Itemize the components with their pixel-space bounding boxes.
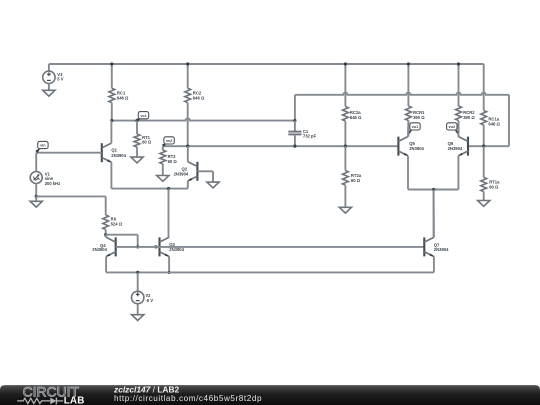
label RC2 646	[193, 91, 205, 101]
wire vc1 link left vertical	[294, 95, 296, 121]
junction RX bottom	[104, 233, 107, 236]
resistor RCR1	[406, 64, 412, 137]
wire Q1 collector	[110, 121, 112, 144]
junction vc2 RC2 Q2	[186, 145, 189, 148]
wire V1 bottom	[35, 184, 37, 197]
svg-text:646 Ω: 646 Ω	[350, 115, 362, 120]
svg-text:LAB: LAB	[64, 396, 85, 405]
wire Q6 emitter	[457, 156, 459, 190]
junction pair tail	[432, 188, 435, 191]
svg-text:http://circuitlab.com/c46b5w5r: http://circuitlab.com/c46b5w5r8t2dp	[114, 394, 262, 403]
node label vo1	[407, 123, 420, 134]
label RT1 60	[142, 135, 152, 145]
svg-text:5 V: 5 V	[57, 77, 63, 82]
ground (V1)	[30, 196, 42, 207]
svg-text:2N3904: 2N3904	[92, 247, 107, 252]
label Q7 2N3904	[434, 242, 449, 252]
wire Q3/Q7 base rail	[138, 246, 425, 248]
label Q3 2N3904	[169, 242, 184, 252]
svg-text:2N3904: 2N3904	[434, 247, 449, 252]
wire RX to Q4 base	[106, 235, 138, 247]
svg-text:vin: vin	[40, 144, 46, 148]
transistor Q6	[458, 137, 468, 156]
svg-text:2N3904: 2N3904	[174, 171, 189, 176]
transistor Q5	[398, 137, 408, 156]
wire Q3 collector	[168, 236, 171, 238]
transistor Q4	[106, 237, 116, 256]
label RX 524	[111, 217, 123, 227]
junction Q3 emitter	[168, 271, 171, 274]
capacitor C1	[288, 121, 301, 147]
ground (RT1)	[131, 157, 143, 163]
label RCR2 390	[463, 110, 475, 120]
wire tail down	[168, 189, 170, 238]
svg-text:60 Ω: 60 Ω	[351, 178, 361, 183]
junction V1 bottom	[35, 195, 38, 198]
svg-text:vc1: vc1	[140, 114, 146, 118]
wire Q6 base	[468, 145, 509, 147]
logo diode	[50, 398, 63, 405]
logo CIRCUIT text	[23, 384, 80, 400]
wire Q4 collector	[105, 235, 107, 238]
wire Q5 emitter	[407, 156, 409, 190]
svg-text:646 Ω: 646 Ω	[488, 122, 500, 127]
svg-text:732 pF: 732 pF	[303, 134, 317, 139]
wire Q2 emitter	[187, 181, 189, 189]
ground (RT2a)	[339, 207, 351, 213]
svg-text:vo2: vo2	[449, 125, 456, 129]
svg-text:Q1: Q1	[111, 148, 117, 153]
junction RCR2 top	[457, 62, 460, 65]
svg-text:646 Ω: 646 Ω	[117, 96, 129, 101]
transistor Q1	[102, 143, 112, 162]
svg-text:390 Ω: 390 Ω	[413, 115, 425, 120]
label Q6 2N3904	[448, 141, 463, 151]
junction tail	[167, 187, 170, 190]
label RT2a 60	[351, 173, 362, 183]
wire Q5Q6 emitter bus	[408, 189, 458, 191]
svg-text:vc2: vc2	[166, 139, 172, 143]
resistor RT1a	[481, 146, 487, 200]
wire Q7 emitter	[433, 257, 435, 273]
label RC2a 646	[350, 110, 362, 120]
junction RT1 top	[135, 119, 138, 122]
wire bottom rail	[106, 271, 434, 273]
wire vin to Q1 base	[36, 152, 102, 154]
ground (Q2 base)	[207, 182, 219, 188]
svg-text:60 Ω: 60 Ω	[489, 185, 499, 190]
logo LAB text	[64, 396, 85, 405]
label RC1a 646	[488, 117, 500, 127]
label RT1a 60	[489, 180, 500, 190]
node label vc1	[136, 112, 149, 122]
svg-text:-5 V: -5 V	[145, 298, 153, 303]
wire Q4 emitter	[105, 257, 107, 273]
junction C1 bottom vc2	[293, 145, 296, 148]
junction V2 top	[136, 271, 139, 274]
wire vc1-to-Q6 link rail with hops	[295, 93, 509, 95]
junction RCR1 top	[407, 62, 410, 65]
junction C1 top vc1	[293, 119, 296, 122]
wire Q5 collector	[407, 121, 409, 137]
junction vc1 RC1 Q1	[110, 119, 113, 122]
wire vc2 rail	[163, 145, 399, 147]
resistor RCR2	[456, 64, 462, 137]
wire Q2 collector	[187, 146, 189, 162]
svg-text:60 Ω: 60 Ω	[168, 159, 178, 164]
resistor RC2	[185, 64, 191, 146]
junction Q4 base wire	[136, 245, 139, 248]
wire Q7 collector	[433, 190, 435, 238]
label RC1 646	[117, 91, 129, 101]
node label vo2	[447, 123, 460, 134]
svg-text:60 Ω: 60 Ω	[142, 140, 152, 145]
ground (V2)	[132, 315, 144, 321]
resistor RT2a	[343, 146, 349, 207]
svg-text:524 Ω: 524 Ω	[111, 222, 123, 227]
wire vc1 rail with hop	[112, 118, 295, 120]
voltage source V2	[132, 272, 144, 314]
label Q2 2N3904	[174, 167, 189, 177]
wire vin corner	[35, 153, 37, 172]
junction RC2 top	[186, 62, 189, 65]
label RT2 60	[168, 154, 178, 164]
junction RC1a bottom	[482, 145, 485, 148]
sine source V1	[30, 172, 42, 184]
resistor RC1	[109, 64, 115, 121]
label Q4 2N3904	[92, 243, 107, 252]
wire Q6 collector	[457, 121, 459, 137]
wire +5V top rail	[49, 63, 484, 65]
svg-text:2N3904: 2N3904	[409, 146, 424, 151]
label Q5 2N3904	[409, 141, 424, 151]
svg-text:200 kHz: 200 kHz	[45, 181, 61, 186]
junction Q3 base	[154, 245, 157, 248]
wire emitter bus	[111, 188, 187, 190]
resistor RC1a	[481, 64, 487, 146]
wire pair tail down	[433, 190, 435, 238]
resistor RT2	[160, 146, 166, 175]
label C1 732pF	[303, 129, 317, 139]
label V1 sine 200kHz	[45, 171, 61, 186]
resistor RC2a	[343, 64, 349, 146]
footer title	[113, 385, 180, 395]
wire Q4 base	[116, 246, 138, 248]
transistor Q7	[424, 237, 434, 256]
resistor RT1	[134, 121, 140, 158]
label V2 -5V	[145, 293, 153, 303]
wire Q1 emitter	[110, 162, 112, 188]
ground (V3)	[43, 90, 55, 96]
ground (RT2)	[157, 176, 169, 182]
footer url	[114, 394, 262, 403]
junction RC2a bottom	[344, 145, 347, 148]
junction RC1 top	[110, 62, 113, 65]
svg-text:2N3904: 2N3904	[111, 153, 126, 158]
node label vin	[35, 141, 48, 153]
wire Q3 emitter	[168, 257, 170, 273]
footer bar	[0, 385, 540, 405]
label V3 5V	[57, 72, 63, 82]
voltage source V3	[43, 64, 55, 90]
resistor RX	[103, 215, 109, 237]
junction RC2a top	[344, 62, 347, 65]
svg-text:2N3904: 2N3904	[448, 146, 463, 151]
svg-text:646 Ω: 646 Ω	[193, 96, 205, 101]
svg-text:vo1: vo1	[412, 125, 419, 129]
wire vc1 link right vertical	[508, 95, 510, 146]
logo resistor squiggle	[17, 398, 50, 403]
node label vc2	[162, 137, 174, 147]
label Q1 2N3904	[111, 148, 126, 158]
ground (RT1a)	[478, 201, 490, 207]
transistor Q2	[188, 162, 198, 181]
svg-text:390 Ω: 390 Ω	[463, 115, 475, 120]
wire V1 to RX	[36, 196, 106, 215]
transistor Q3	[160, 237, 170, 256]
label RCR1 390	[413, 110, 425, 120]
wire Q2 base to ground	[197, 171, 213, 182]
